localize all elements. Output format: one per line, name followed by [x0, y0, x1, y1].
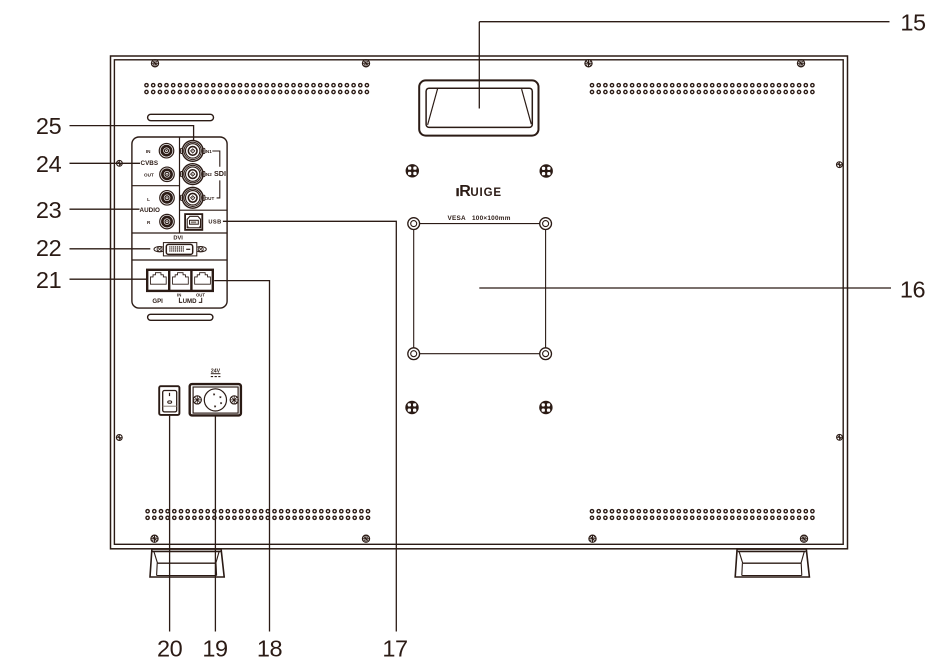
svg-text:18: 18	[257, 636, 283, 662]
svg-text:CVBS: CVBS	[141, 160, 159, 167]
svg-text:17: 17	[382, 636, 407, 662]
SDI IN1 BNC jack	[181, 141, 205, 162]
CVBS IN RCA jack	[159, 143, 174, 158]
handle 15	[419, 80, 538, 135]
vent slot above connector panel	[148, 114, 214, 120]
svg-text:20: 20	[157, 636, 183, 662]
right foot	[735, 549, 809, 577]
VESA hole bottom-left	[408, 348, 420, 360]
leader line 22	[70, 248, 151, 250]
screw 4-hole top-right	[540, 164, 553, 177]
DVI pin grid	[169, 246, 184, 251]
power switch 20	[159, 386, 179, 415]
leader line 19	[214, 416, 216, 632]
screw 4-hole top-left	[406, 164, 419, 177]
svg-text:23: 23	[36, 197, 62, 223]
leader line 24	[70, 162, 141, 164]
panel divider CVBS/AUDIO	[132, 185, 180, 187]
screw 4-hole bottom-right	[539, 401, 552, 414]
RUIGE logo	[456, 183, 502, 200]
vent grid top-right	[590, 84, 814, 87]
screw top row	[151, 60, 158, 67]
screw right edge upper	[837, 162, 843, 168]
DVI blade slot	[186, 248, 190, 250]
monitor body inner panel	[114, 60, 843, 545]
svg-text:UMD: UMD	[183, 298, 197, 305]
panel divider above DVI	[132, 232, 227, 234]
vent grid bottom-left	[146, 510, 370, 513]
RJ45 GPI jack	[150, 273, 166, 285]
DVI connector	[154, 243, 206, 256]
VESA hole top-right	[540, 218, 552, 230]
panel divider below DVI	[132, 259, 227, 261]
RJ45 jack block	[147, 270, 213, 291]
leader line 18	[214, 281, 269, 632]
screw right edge lower	[837, 434, 843, 440]
svg-text:OUT: OUT	[144, 172, 154, 177]
AUDIO R RCA jack	[160, 214, 175, 229]
left foot	[150, 549, 224, 577]
svg-text:25: 25	[36, 113, 62, 139]
VESA hole bottom-right	[540, 348, 552, 360]
SDI OUT BNC jack	[181, 187, 205, 208]
svg-text:19: 19	[202, 636, 227, 662]
svg-text:VESA 100×100mm: VESA 100×100mm	[448, 215, 511, 222]
svg-text:15: 15	[900, 9, 926, 35]
leader line 25	[70, 126, 194, 141]
connector panel box	[132, 137, 227, 308]
AUDIO L RCA jack	[160, 191, 175, 206]
screw left edge upper	[117, 160, 123, 166]
svg-text:L: L	[147, 197, 150, 202]
svg-text:24: 24	[36, 151, 62, 177]
leader line 21	[70, 278, 147, 280]
svg-text:R: R	[147, 220, 151, 225]
svg-text:DVI: DVI	[173, 235, 183, 241]
svg-text:22: 22	[36, 235, 61, 261]
svg-text:OUT: OUT	[196, 293, 205, 298]
svg-text:AUDIO: AUDIO	[140, 207, 160, 214]
svg-text:IN: IN	[146, 149, 151, 154]
svg-text:IN: IN	[177, 293, 181, 298]
screw left edge lower	[116, 435, 122, 441]
screw bottom row	[151, 535, 158, 542]
VESA square 16	[414, 224, 546, 354]
vent grid bottom-right	[590, 510, 814, 513]
XLR power connector 19	[190, 384, 241, 415]
svg-text:OUT: OUT	[205, 196, 215, 201]
leader line 17	[223, 221, 396, 631]
SDI IN2 BNC jack	[181, 164, 205, 185]
svg-text:USB: USB	[208, 220, 221, 226]
svg-text:21: 21	[36, 267, 61, 293]
panel divider vertical	[179, 137, 181, 233]
XLR pins	[213, 394, 215, 396]
monitor body outer shell	[111, 56, 848, 549]
vent grid top-left	[145, 84, 369, 87]
UMD bracket	[179, 298, 201, 303]
VESA hole top-left	[408, 218, 420, 230]
SDI bracket	[212, 151, 220, 198]
RJ45 UMD OUT jack	[195, 273, 211, 285]
svg-text:GPI: GPI	[152, 298, 163, 305]
svg-text:UIGE: UIGE	[470, 187, 502, 199]
svg-text:16: 16	[900, 277, 926, 303]
svg-text:IN2: IN2	[205, 172, 213, 177]
svg-text:SDI: SDI	[214, 169, 226, 178]
USB connector	[185, 214, 202, 230]
vent slot below connector panel	[148, 314, 213, 320]
RJ45 UMD IN jack	[173, 273, 189, 285]
leader line 16	[479, 287, 891, 289]
screw 4-hole bottom-left	[405, 401, 418, 414]
leader line 20	[169, 416, 171, 632]
leader line 23	[70, 208, 140, 210]
CVBS OUT RCA jack	[160, 167, 175, 182]
svg-text:IN1: IN1	[205, 149, 213, 154]
leader line 15	[479, 22, 889, 109]
panel divider SDI/USB	[180, 209, 228, 211]
